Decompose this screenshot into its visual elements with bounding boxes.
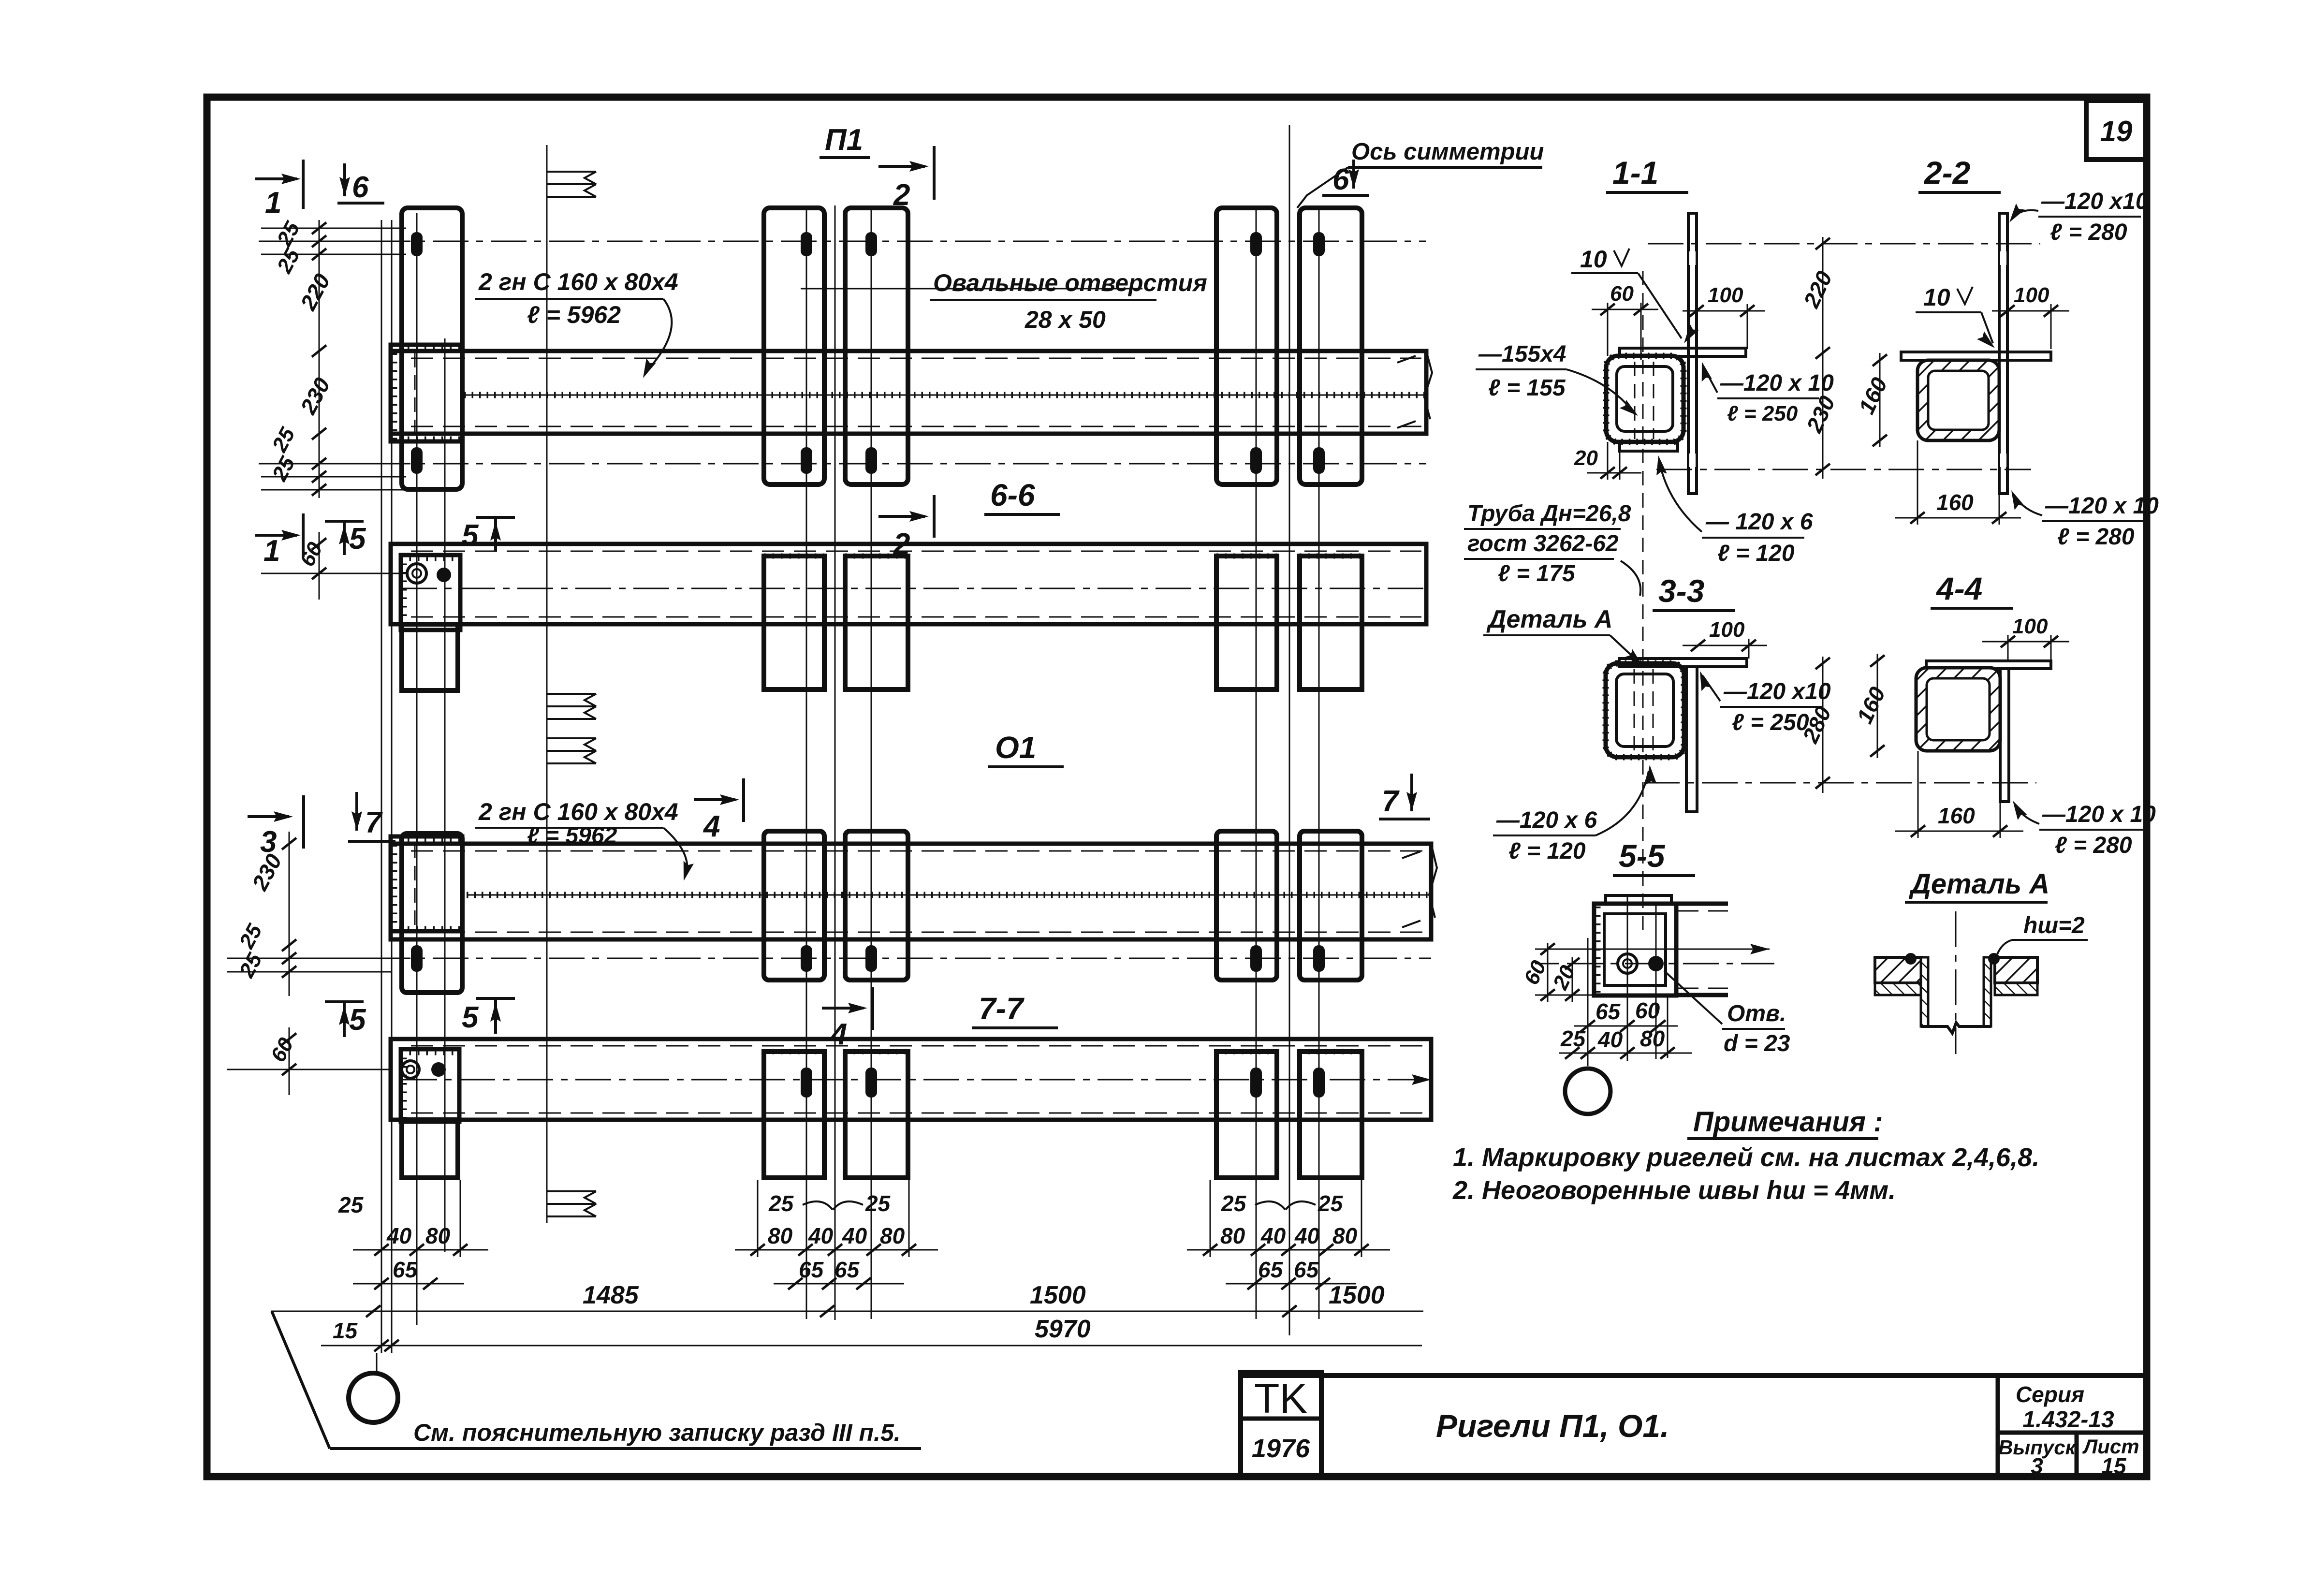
svg-text:Ригели П1, О1.: Ригели П1, О1. (1436, 1408, 1669, 1444)
end corner plate (401, 555, 460, 630)
section marker 7 left (348, 792, 395, 841)
svg-text:2: 2 (893, 527, 910, 561)
dim 160 vertical (1879, 353, 1881, 447)
dim 160 bottom (1917, 751, 1919, 838)
svg-text:60: 60 (1610, 282, 1634, 306)
svg-text:10: 10 (1923, 284, 1950, 311)
svg-text:ℓ = 120: ℓ = 120 (1508, 838, 1586, 864)
section marker 2 top (878, 146, 934, 212)
box section 160 (1916, 668, 2000, 751)
hole axis line (259, 958, 1431, 959)
plate right1 (1216, 831, 1277, 980)
bottom plate 120x6 (1620, 442, 1678, 451)
svg-text:65: 65 (799, 1257, 824, 1282)
center axis (401, 588, 1426, 589)
end corner plate (401, 1049, 459, 1122)
svg-text:160: 160 (1938, 803, 1975, 828)
svg-text:65: 65 (1595, 999, 1621, 1024)
svg-text:1. Маркировку ригелей см. н: 1. Маркировку ригелей см. на листах 2,4,… (1453, 1143, 2039, 1172)
plate mid1 (764, 1052, 824, 1178)
plate right2 (1300, 556, 1362, 689)
svg-text:7: 7 (365, 806, 383, 839)
plate mid2 (845, 1052, 908, 1178)
svg-text:19: 19 (2100, 115, 2133, 147)
weld seam centerline (467, 894, 1431, 896)
svg-text:ℓ = 155: ℓ = 155 (1488, 375, 1566, 401)
svg-text:ℓ = 120: ℓ = 120 (1717, 541, 1795, 566)
dim 280 (1822, 657, 1824, 793)
axis of symmetry line (1289, 125, 1290, 1335)
stamp box TK 1976 (1241, 1372, 1321, 1476)
svg-text:5: 5 (349, 522, 366, 556)
weld points (1905, 953, 1917, 965)
svg-text:—120 х10: —120 х10 (1723, 679, 1831, 704)
upper plate left (1875, 957, 1922, 983)
tube callout (1464, 501, 1640, 596)
svg-text:Ось симметрии: Ось симметрии (1351, 139, 1544, 165)
svg-text:ℓ = 175: ℓ = 175 (1498, 561, 1576, 586)
section marker 1 bottom (255, 513, 303, 568)
break pennant top (547, 172, 596, 197)
svg-text:6: 6 (352, 171, 369, 204)
svg-text:80: 80 (425, 1223, 451, 1248)
svg-text:40: 40 (808, 1223, 834, 1248)
svg-text:4-4: 4-4 (1935, 571, 1982, 606)
row3 dim stack (227, 832, 392, 996)
svg-text:160: 160 (1936, 490, 1974, 515)
stiffener plate right2 (1300, 208, 1362, 484)
svg-text:65: 65 (1294, 1257, 1319, 1282)
svg-text:80: 80 (880, 1223, 905, 1248)
box section 155x4 (1606, 356, 1683, 442)
svg-text:5-5: 5-5 (1619, 838, 1666, 874)
svg-text:—120 х 6: —120 х 6 (1496, 807, 1597, 833)
svg-text:25: 25 (1221, 1191, 1247, 1216)
through lines (1571, 949, 1770, 950)
svg-text:ℓ = 250: ℓ = 250 (1727, 402, 1798, 425)
horizontal plate 120x10 (1619, 659, 1747, 667)
svg-text:4: 4 (703, 810, 720, 843)
svg-text:Отв.: Отв. (1727, 1001, 1786, 1026)
bolt column line right1 (1256, 205, 1257, 1319)
dims 220 230 (1822, 237, 1824, 479)
svg-text:1500: 1500 (1329, 1281, 1385, 1309)
svg-text:2 гн С 160 х 80х4: 2 гн С 160 х 80х4 (478, 268, 678, 295)
dim 100 (2050, 304, 2052, 349)
svg-text:65: 65 (393, 1257, 418, 1282)
stiffener plate right1 (1216, 208, 1277, 484)
section marker 2 bottom (878, 495, 934, 561)
plate mid1 (764, 556, 824, 689)
dim 20 (1607, 442, 1609, 480)
lower plate right (1995, 983, 2037, 995)
mid cluster 80 40 40 80 (735, 205, 938, 1320)
node circle (1565, 1069, 1610, 1114)
plate right1 (1216, 556, 1277, 689)
tube walls (1921, 957, 1928, 1026)
svg-text:5: 5 (462, 519, 479, 552)
upper plate right (1995, 957, 2037, 983)
svg-text:О1: О1 (995, 730, 1036, 765)
tube bottom (1921, 1023, 1991, 1033)
vertical aux lines (1588, 894, 1668, 1066)
plate right2 (1300, 831, 1362, 980)
oval slots (411, 945, 1325, 972)
svg-text:1485: 1485 (583, 1281, 639, 1309)
svg-text:Овальные отверстия: Овальные отверстия (933, 269, 1207, 296)
label O1 (988, 730, 1064, 767)
lower plate left (1875, 983, 1922, 995)
plate below left (402, 1120, 458, 1178)
right cluster 25 25 (1221, 1191, 1344, 1216)
plate below left (402, 624, 458, 690)
svg-text:1: 1 (265, 186, 281, 220)
svg-text:10: 10 (1580, 246, 1607, 273)
dim 100 (1747, 304, 1748, 349)
svg-text:25: 25 (338, 1192, 364, 1217)
plate mid1 (764, 831, 824, 980)
callout oval holes (801, 269, 1207, 333)
section marker 6 right (1322, 160, 1369, 196)
oval slots lower (411, 447, 1325, 474)
svg-text:Примечания :: Примечания : (1693, 1106, 1883, 1138)
horizontal plate 120x10 (1901, 352, 2051, 360)
svg-text:Серия: Серия (2016, 1382, 2084, 1407)
vertical flange plate 120x10 (1999, 213, 2007, 494)
plate mid2 (845, 556, 908, 689)
svg-text:—155х4: —155х4 (1478, 341, 1566, 367)
lower axis line sections 1-1 2-2 (1656, 469, 2031, 470)
overall dimension 5970 (321, 1315, 1422, 1351)
bolt dot (437, 568, 451, 582)
svg-text:100: 100 (2014, 283, 2049, 307)
svg-text:60: 60 (1635, 998, 1660, 1023)
bottom-left reference trapezoid (272, 1311, 921, 1449)
svg-text:25: 25 (1317, 1191, 1344, 1216)
svg-text:1: 1 (263, 534, 280, 568)
row2 dim 60 (261, 532, 406, 600)
svg-text:—120 х 10: —120 х 10 (2042, 802, 2156, 827)
svg-text:5: 5 (462, 1001, 479, 1034)
section marker 5 mid (462, 517, 515, 552)
svg-text:—120 х 10: —120 х 10 (2045, 493, 2159, 519)
svg-text:1500: 1500 (1030, 1281, 1086, 1309)
svg-text:40: 40 (1260, 1223, 1286, 1248)
end gusset (391, 836, 462, 931)
shared hole axis line sections 1-1 2-2 (1648, 243, 2040, 245)
svg-text:7: 7 (1382, 785, 1400, 818)
oval slots upper (411, 232, 1325, 256)
plate mid2 (845, 831, 908, 980)
bolt column line left (416, 213, 418, 1325)
label 7-7 (972, 991, 1058, 1028)
svg-text:hш=2: hш=2 (2023, 913, 2085, 938)
hole axis line lower (259, 463, 1426, 465)
hole axis line upper (259, 241, 1426, 242)
left cluster 40 80 (338, 1180, 488, 1257)
centerline (1955, 911, 1957, 1054)
dim 160 bottom (1917, 440, 1918, 525)
svg-text:ℓ = 5962: ℓ = 5962 (527, 301, 621, 328)
section marker 3 (248, 795, 304, 859)
vertical flange plate 120x10 (1688, 213, 1697, 494)
section marker 1 top (255, 160, 303, 220)
svg-text:4: 4 (830, 1018, 847, 1051)
long vertical extension line left pair (381, 220, 382, 1353)
beam stub right (1676, 904, 1728, 995)
main dimension line 1485 1500 1500 (271, 1281, 1423, 1317)
bolt hole circle (407, 564, 426, 583)
serration at plate tops (764, 554, 1362, 559)
box section 155x4 (1606, 663, 1684, 757)
beam body (391, 1039, 1431, 1120)
left dims 60 20 (1547, 943, 1549, 1002)
label P1 (820, 123, 870, 158)
svg-text:1-1: 1-1 (1612, 155, 1658, 190)
svg-text:15: 15 (333, 1318, 358, 1343)
bolt column line mid1 (806, 205, 807, 1319)
notes heading (1687, 1106, 1883, 1139)
svg-text:Деталь А: Деталь А (1486, 605, 1613, 633)
svg-text:—120 х 10: —120 х 10 (1720, 370, 1834, 396)
svg-text:ℓ = 250: ℓ = 250 (1732, 710, 1809, 735)
svg-text:80: 80 (1220, 1223, 1245, 1248)
svg-text:Деталь А: Деталь А (1908, 868, 2049, 900)
svg-text:2-2: 2-2 (1923, 155, 1971, 190)
svg-text:65: 65 (834, 1257, 860, 1282)
svg-text:25: 25 (768, 1191, 794, 1216)
svg-text:ℓ = 280: ℓ = 280 (2050, 220, 2127, 245)
drawing frame border (207, 97, 2147, 1477)
mid cluster 65 65 (774, 1257, 904, 1289)
svg-text:28 х 50: 28 х 50 (1025, 306, 1106, 333)
svg-text:40: 40 (842, 1223, 867, 1248)
mid cluster 25 25 (768, 1191, 891, 1216)
svg-text:80: 80 (1640, 1026, 1665, 1051)
plate right1 (1216, 1052, 1277, 1178)
svg-text:TK: TK (1254, 1376, 1307, 1422)
horizontal plate 120x10 (1926, 661, 2051, 669)
svg-text:40: 40 (386, 1223, 412, 1248)
svg-text:100: 100 (2012, 615, 2048, 638)
section marker 4 top (694, 778, 744, 843)
break pennant bottom (547, 1191, 596, 1216)
right cluster 65 65 (1226, 1257, 1356, 1289)
bolt column line mid2 (871, 205, 872, 1319)
svg-text:ℓ = 5962: ℓ = 5962 (527, 823, 617, 849)
section marker 5 left row3 (325, 1002, 366, 1037)
row1 dim stack (261, 218, 406, 498)
svg-text:5: 5 (349, 1003, 366, 1037)
beam end break (1397, 351, 1432, 428)
svg-text:15: 15 (2101, 1453, 2127, 1479)
page number box 19 (2086, 101, 2147, 160)
circle stem (376, 1353, 378, 1374)
stiffener plate left (402, 208, 462, 489)
break reference line (546, 145, 548, 1223)
svg-text:6: 6 (1332, 163, 1349, 196)
svg-text:П1: П1 (825, 123, 863, 157)
svg-text:ℓ = 280: ℓ = 280 (2055, 833, 2132, 858)
series cell (1998, 1376, 2147, 1479)
svg-text:80: 80 (768, 1223, 793, 1248)
center axis (401, 1079, 1431, 1081)
callout channel row3 (475, 798, 694, 882)
stiffener plate mid2 (845, 208, 908, 484)
svg-text:25: 25 (1560, 1026, 1586, 1051)
bolt column line left2 (444, 338, 446, 1252)
reference circle (349, 1373, 398, 1422)
svg-text:25: 25 (865, 1191, 891, 1216)
svg-text:1.432-13: 1.432-13 (2022, 1407, 2114, 1433)
label 6-6 (984, 478, 1060, 514)
callout channel row1 (475, 268, 678, 381)
vertical plate 120x10 (2000, 669, 2009, 802)
svg-text:ℓ = 280: ℓ = 280 (2057, 524, 2135, 550)
lower axis line sections 3-3 4-4 (1644, 782, 2036, 784)
svg-text:6-6: 6-6 (990, 478, 1035, 512)
section marker 4 bottom (822, 987, 873, 1051)
break pennant mid2 (547, 738, 596, 763)
section marker 6 top (337, 163, 384, 204)
svg-text:1976: 1976 (1252, 1434, 1310, 1463)
svg-text:2 гн С 160 х 80х4: 2 гн С 160 х 80х4 (478, 798, 678, 825)
beam body (391, 351, 1426, 434)
beam body (391, 844, 1431, 939)
beam end break (1402, 844, 1437, 927)
wire (391, 220, 393, 1353)
svg-text:3: 3 (2031, 1453, 2043, 1479)
right cluster 80 40 40 80 (1187, 1180, 1390, 1257)
bolt dot (431, 1062, 446, 1077)
dim 60 (1607, 303, 1609, 356)
dim 160 vertical (1877, 654, 1878, 758)
bolt hole circle (1618, 954, 1637, 973)
corner plate (1594, 904, 1676, 996)
bolt dot (1648, 956, 1664, 971)
svg-text:65: 65 (1258, 1257, 1284, 1282)
dims 25 40 80 (1559, 1053, 1692, 1054)
svg-text:гост 3262-62: гост 3262-62 (1467, 531, 1619, 556)
svg-text:100: 100 (1708, 283, 1743, 307)
dim 100 (2007, 635, 2009, 661)
svg-text:20: 20 (1574, 446, 1598, 470)
vertical centerline sections 1-1 3-3 (1642, 271, 1644, 933)
svg-text:2: 2 (893, 178, 910, 212)
stiffener plate mid1 (764, 208, 824, 484)
svg-text:100: 100 (1709, 618, 1745, 642)
axis of symmetry label (1297, 139, 1544, 208)
end gusset (391, 345, 462, 441)
svg-text:5970: 5970 (1035, 1315, 1091, 1343)
plate left (402, 834, 462, 993)
row4 dim 60 (227, 1027, 392, 1095)
svg-text:2. Неоговоренные швы hш = 4м: 2. Неоговоренные швы hш = 4мм. (1452, 1176, 1896, 1205)
dims 65 60 (1574, 1025, 1678, 1027)
svg-text:— 120 х 6: — 120 х 6 (1705, 509, 1813, 535)
title block top line (1241, 1373, 2147, 1378)
dim 100 (1748, 639, 1750, 659)
bolt column line right2 (1318, 205, 1320, 1319)
section marker 5 mid row3 (462, 998, 515, 1034)
beam body (391, 544, 1426, 624)
vertical plate 120x10 (1686, 667, 1697, 812)
svg-text:3-3: 3-3 (1658, 573, 1704, 609)
svg-text:Труба Дн=26,8: Труба Дн=26,8 (1467, 501, 1631, 527)
svg-text:40: 40 (1294, 1223, 1320, 1248)
svg-text:d = 23: d = 23 (1724, 1031, 1790, 1056)
box section 160 (1917, 360, 1999, 440)
svg-text:7-7: 7-7 (979, 991, 1025, 1026)
horizontal plate 120x10 (1620, 348, 1746, 356)
serration at plate tops (764, 1049, 1362, 1054)
oval slots (801, 1068, 1325, 1098)
break pennant mid1 (547, 694, 596, 719)
svg-text:40: 40 (1597, 1027, 1623, 1052)
svg-text:См. пояснительную записку ра: См. пояснительную записку разд III п.5. (413, 1419, 901, 1446)
section marker 7 right (1379, 774, 1430, 819)
svg-text:80: 80 (1332, 1223, 1358, 1248)
section marker 5 left (325, 521, 366, 556)
plate right2 (1300, 1052, 1362, 1178)
bolt hole circle (402, 1061, 419, 1078)
svg-text:—120 х10: —120 х10 (2041, 189, 2149, 214)
weld seam centerline (464, 395, 1426, 396)
left cluster 65 (353, 1257, 464, 1289)
